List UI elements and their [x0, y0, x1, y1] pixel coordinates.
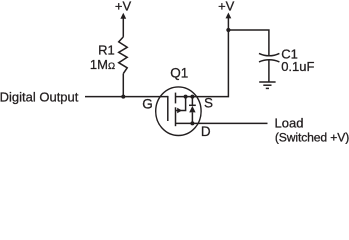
body diode cathode bar: [189, 104, 196, 106]
svg-text:D: D: [201, 124, 211, 139]
transistor Q1 P-channel MOSFET: [156, 87, 201, 136]
svg-text:+V: +V: [218, 0, 235, 14]
wire R1 to gate node: [122, 74, 124, 97]
channel top segment: [175, 93, 177, 104]
svg-text:Load: Load: [275, 116, 304, 131]
capacitor C1 bottom plate: [259, 60, 279, 62]
body diode leads: [191, 97, 193, 106]
power +V (right): [218, 0, 235, 14]
wire +V tee to C1: [228, 30, 269, 56]
bulk connection with P-channel arrow: [176, 97, 186, 111]
label (Switched +V): [275, 131, 349, 145]
label C1: [281, 47, 298, 62]
node +V / C1 tee junction: [226, 28, 230, 32]
label Load: [275, 116, 304, 131]
ground: [259, 82, 275, 88]
power +V (left): [115, 0, 132, 14]
power arrow (left +V): [120, 13, 126, 37]
svg-text:R1: R1: [98, 43, 115, 58]
gate plate: [167, 96, 169, 121]
node bulk-source junction: [184, 95, 188, 99]
wire C1 to ground: [268, 60, 270, 82]
wire source to +V (right): [176, 30, 229, 97]
label 1M ohm: [90, 57, 115, 72]
svg-text:(Switched +V): (Switched +V): [275, 131, 349, 144]
body diode anode triangle (tip up): [189, 106, 195, 113]
svg-text:1MΩ: 1MΩ: [90, 57, 115, 72]
svg-text:Digital Output: Digital Output: [0, 90, 79, 105]
node diode-source junction: [190, 95, 194, 99]
label S: [204, 96, 213, 111]
node gate junction: [121, 95, 125, 99]
wire digital output to gate: [85, 96, 168, 98]
svg-text:S: S: [204, 96, 213, 111]
label Q1: [170, 65, 188, 80]
label D: [201, 124, 211, 139]
label 0.1uF: [281, 59, 314, 74]
svg-text:+V: +V: [115, 0, 132, 14]
channel bottom segment: [175, 107, 177, 126]
wire drain to load: [176, 122, 268, 124]
capacitor C1 top plate: [259, 53, 279, 55]
svg-text:G: G: [142, 96, 153, 111]
label Digital Output: [0, 90, 79, 105]
svg-text:Q1: Q1: [170, 65, 188, 80]
node diode-drain junction: [190, 121, 194, 125]
power arrow (right +V): [226, 13, 232, 31]
label G: [142, 96, 153, 111]
label R1: [98, 43, 115, 58]
resistor R1: [119, 37, 128, 74]
svg-text:0.1uF: 0.1uF: [281, 59, 314, 74]
